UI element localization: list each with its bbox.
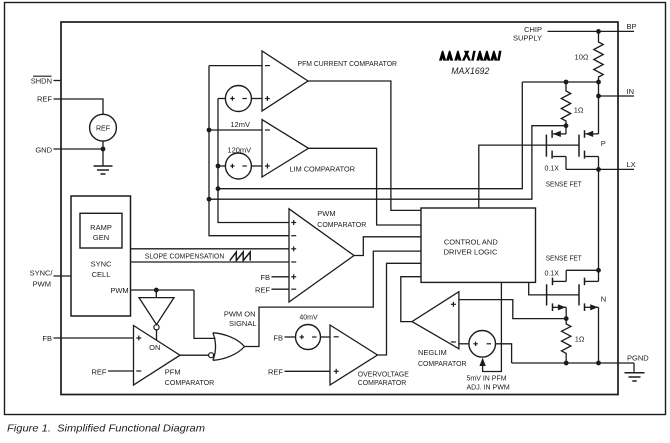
wire P gate drive from control logic — [479, 145, 579, 208]
wire chip supply to BP pin — [548, 30, 635, 32]
NEGLIM plus sign — [451, 302, 456, 307]
svg-text:COMPARATOR: COMPARATOR — [317, 220, 367, 229]
junction bus A / LIM minus — [207, 128, 212, 133]
svg-text:FB: FB — [260, 273, 270, 282]
label ON — [149, 343, 160, 352]
transistor Q3 N sense FET 0.1X — [547, 278, 553, 311]
wire slope compensation top — [131, 248, 290, 250]
wire 5mV source to PGND rail — [496, 344, 512, 363]
svg-text:0.1X: 0.1X — [545, 270, 560, 277]
label 0.1X (P sense FET) — [545, 165, 560, 172]
label REF (overvoltage) — [268, 367, 283, 376]
label REF (PWM comparator) — [255, 285, 270, 294]
svg-text:RAMP: RAMP — [90, 223, 112, 232]
wire FB pin to PFM comparator — [54, 337, 134, 339]
svg-text:BP: BP — [627, 22, 637, 31]
svg-text:SHDN: SHDN — [31, 77, 52, 86]
resistor R2 1ohm top — [561, 82, 570, 126]
junction 1ohm bottom / sense FET drain — [564, 123, 569, 128]
wire REF pin to reference block — [61, 99, 103, 114]
pin SHDN stub wire — [54, 80, 62, 82]
svg-text:N: N — [601, 295, 606, 304]
arrow 5mV adjust — [479, 358, 485, 366]
wire slope compensation bottom — [131, 261, 290, 263]
wire REF to PFM comparator — [108, 370, 134, 372]
junction GND node — [101, 147, 106, 152]
label N — [601, 295, 606, 304]
OR gate U-OR — [213, 333, 245, 361]
wire NEGLIM plus input to 1ohm bottom top — [459, 300, 566, 319]
wire bus A (PFM CC minus to PWM comparator) — [209, 66, 289, 236]
wire NEGLIM minus input to 5mV source — [459, 343, 469, 345]
wire LX rail — [566, 168, 634, 170]
svg-text:12mV: 12mV — [230, 120, 250, 129]
wire GND pin — [54, 148, 104, 150]
svg-text:DRIVER LOGIC: DRIVER LOGIC — [444, 248, 498, 257]
pin IN wire — [599, 95, 635, 97]
pin REF label — [37, 95, 52, 104]
wire 40mV source to overvoltage comparator — [321, 336, 331, 338]
wire sense B to 1ohm bottom — [209, 126, 566, 200]
ramp gen box — [80, 213, 122, 248]
svg-text:SYNC/: SYNC/ — [30, 269, 54, 278]
label PWM (sync cell output) — [110, 286, 128, 295]
wire PWM from sync cell — [131, 289, 195, 291]
junction bus B / sense wire A — [216, 186, 221, 191]
svg-text:SUPPLY: SUPPLY — [513, 33, 542, 42]
wire PFM current comparator output to control logic — [308, 81, 421, 210]
svg-text:SLOPE COMPENSATION: SLOPE COMPENSATION — [145, 254, 225, 261]
label 5mV IN PFM ADJ. IN PWM — [467, 376, 510, 392]
label SENSE FET (top) — [546, 182, 583, 189]
PFM current comparator plus sign — [265, 96, 270, 101]
svg-text:40mV: 40mV — [299, 314, 318, 321]
junction N FET drain / LX — [596, 268, 601, 273]
label PFM CURRENT COMPARATOR — [298, 59, 398, 68]
LIM comparator plus sign — [265, 164, 270, 169]
svg-text:REF: REF — [255, 285, 270, 294]
pin SYNC/PWM label — [30, 269, 54, 289]
wire PWM comparator output to control logic — [354, 237, 421, 256]
svg-text:PWM: PWM — [33, 280, 51, 289]
svg-text:LX: LX — [627, 160, 636, 169]
label MAX1692 — [451, 66, 489, 76]
IC boundary box — [61, 22, 618, 395]
offset source V2 120mV circle — [225, 153, 251, 179]
pin IN label — [627, 87, 635, 96]
offset source V1 12mV circle — [225, 86, 251, 112]
PFM current comparator minus sign — [265, 65, 270, 67]
junction bus B / 120mV source — [216, 164, 221, 169]
svg-text:PWM: PWM — [317, 209, 335, 218]
wire OR gate output to control logic — [245, 251, 422, 346]
overvoltage plus sign — [334, 369, 339, 374]
wire inverter bubble to PFM comparator ON input — [156, 330, 158, 341]
label SENSE FET (bottom) — [546, 256, 583, 263]
svg-text:SYNC: SYNC — [91, 260, 112, 269]
wire PGND rail — [512, 362, 634, 364]
PWM comparator input signs — [291, 220, 296, 289]
svg-text:ADJ. IN PWM: ADJ. IN PWM — [467, 385, 510, 392]
svg-text:FB: FB — [42, 334, 52, 343]
wire LX to N FET drain — [598, 169, 600, 270]
label SLOPE COMPENSATION — [145, 254, 225, 261]
label 40mV — [299, 314, 318, 321]
svg-text:PFM CURRENT COMPARATOR: PFM CURRENT COMPARATOR — [298, 59, 398, 68]
svg-text:PWM: PWM — [110, 286, 128, 295]
svg-text:5mV IN PFM: 5mV IN PFM — [467, 376, 507, 383]
junction rail / 10ohm bottom — [596, 80, 601, 85]
wire REF to PWM comparator — [272, 288, 290, 290]
resistor R1 10ohm — [594, 31, 603, 82]
junction PWM node — [154, 288, 159, 293]
op-amp PFM current comparator triangle — [262, 51, 308, 111]
wire LIM comparator output to control logic — [309, 148, 422, 225]
PFM comparator plus sign — [136, 336, 141, 341]
svg-text:1Ω: 1Ω — [575, 335, 585, 344]
wire bus B (12mV source to PWM comparator) — [218, 99, 289, 223]
svg-text:10Ω: 10Ω — [575, 52, 589, 61]
junction 1ohm bottom resistor top — [564, 316, 569, 321]
op-amp overvoltage comparator triangle — [330, 325, 378, 385]
svg-text:Figure 1. Simplified Function: Figure 1. Simplified Functional Diagram — [7, 423, 205, 435]
wire FB to 40mV source — [285, 336, 296, 338]
pin PGND label — [627, 353, 649, 362]
svg-text:REF: REF — [37, 95, 52, 104]
label 12mV — [230, 120, 250, 129]
wire PWM node to OR gate top input — [194, 290, 216, 338]
sawtooth ramp icon — [230, 252, 250, 261]
svg-text:COMPARATOR: COMPARATOR — [418, 359, 467, 368]
svg-text:PGND: PGND — [627, 353, 649, 362]
label OVERVOLTAGE COMPARATOR — [358, 370, 409, 388]
svg-text:1Ω: 1Ω — [574, 105, 584, 114]
junction LX node — [596, 167, 601, 172]
svg-text:PWM ON: PWM ON — [224, 310, 256, 319]
junction bus A / sense wire B — [207, 197, 212, 202]
svg-text:SIGNAL: SIGNAL — [229, 319, 257, 328]
svg-text:REF: REF — [92, 367, 107, 376]
ground symbol PGND — [633, 363, 635, 372]
svg-text:COMPARATOR: COMPARATOR — [165, 378, 215, 387]
wire supply rail — [522, 81, 598, 83]
wire IN node vertical — [598, 82, 600, 134]
inverter U-INV triangle — [139, 298, 174, 325]
wire PWM node to inverter — [155, 290, 157, 298]
NEGLIM minus sign — [451, 341, 456, 343]
pin REF stub wire — [54, 98, 62, 100]
wire REF to overvoltage comparator — [285, 370, 331, 372]
svg-text:SENSE FET: SENSE FET — [546, 256, 583, 263]
sync cell box — [71, 196, 131, 316]
transistor Q1 P sense FET 0.1X — [546, 130, 552, 158]
label LIM COMPARATOR — [290, 165, 356, 174]
junction PGND / 1ohm bottom — [564, 361, 569, 366]
op-amp NEGLIM comparator triangle — [412, 292, 459, 349]
label 1ohm top — [574, 105, 584, 114]
wire 120mV source to LIM comparator — [251, 165, 262, 167]
pin BP label — [627, 22, 637, 31]
wire NEGLIM output to control logic — [401, 277, 421, 322]
PFM comparator minus sign — [136, 370, 141, 372]
pin SYNC/PWM stub wire — [54, 275, 72, 277]
svg-text:CELL: CELL — [92, 270, 111, 279]
wire PFM comparator output to OR gate — [180, 354, 209, 356]
label PWM ON SIGNAL — [224, 310, 257, 329]
wire LIM comparator minus input — [209, 129, 262, 131]
wire control logic to 5mV adjust — [483, 282, 502, 371]
transistor Q2 main P FET — [579, 130, 585, 158]
caption Figure 1 — [7, 423, 205, 435]
svg-text:P: P — [601, 139, 606, 148]
svg-text:LIM COMPARATOR: LIM COMPARATOR — [290, 165, 356, 174]
control and driver logic box U-CTL — [421, 208, 536, 282]
junction PGND / N FET source — [596, 361, 601, 366]
junction BP node — [596, 29, 601, 34]
resistor R3 1ohm bottom — [562, 319, 571, 363]
wire 12mV source to PFM current comparator — [251, 98, 262, 100]
wire 12mV source left — [218, 98, 225, 100]
reference block U-REF circle — [90, 114, 117, 141]
svg-text:IN: IN — [627, 87, 635, 96]
pin FB label — [42, 334, 52, 343]
offset source V3 5mV circle — [469, 331, 496, 358]
svg-text:NEGLIM: NEGLIM — [418, 348, 447, 357]
label 10ohm — [575, 52, 589, 61]
OR gate input bubble — [209, 353, 214, 358]
svg-text:CONTROL AND: CONTROL AND — [444, 238, 498, 247]
transistor Q4 main N FET — [579, 278, 585, 311]
svg-text:SENSE FET: SENSE FET — [546, 182, 583, 189]
wire PFM current comparator minus input — [209, 65, 262, 67]
wire 120mV source left — [218, 165, 225, 167]
overvoltage minus sign — [334, 336, 339, 338]
label FB (overvoltage) — [273, 334, 283, 343]
wire REF block to ground — [102, 141, 104, 165]
junction IN node — [596, 94, 601, 99]
svg-text:FB: FB — [273, 334, 283, 343]
svg-text:0.1X: 0.1X — [545, 165, 560, 172]
label P — [601, 139, 606, 148]
inverter output bubble — [154, 325, 159, 330]
op-amp LIM comparator triangle — [262, 120, 309, 177]
wire FB to PWM comparator — [272, 276, 290, 278]
LIM comparator minus sign — [265, 129, 270, 131]
label PWM COMPARATOR — [317, 209, 367, 229]
label 120mV — [227, 145, 251, 154]
svg-text:REF: REF — [268, 367, 283, 376]
junction rail / 1ohm top — [564, 80, 569, 85]
label FB (PWM comparator) — [260, 273, 270, 282]
label REF (PFM comparator) — [92, 367, 107, 376]
logo MAXIM — [439, 51, 502, 61]
ground symbol GND — [94, 166, 113, 174]
op-amp PWM comparator triangle — [289, 209, 354, 302]
label 1ohm bottom — [575, 335, 585, 344]
label NEGLIM COMPARATOR — [418, 348, 467, 368]
wire sense A to 1ohm top — [218, 82, 522, 189]
pin LX label — [627, 160, 636, 169]
op-amp PFM comparator triangle — [134, 326, 181, 386]
svg-text:PFM: PFM — [165, 368, 181, 377]
wire N gate drive from control logic — [529, 282, 579, 295]
label CHIP SUPPLY — [513, 25, 542, 43]
pin SHDN overline — [33, 75, 52, 77]
svg-text:ON: ON — [149, 343, 160, 352]
pin SHDN label — [31, 77, 52, 86]
svg-text:GND: GND — [35, 146, 52, 155]
label PFM COMPARATOR — [165, 368, 215, 387]
offset source V4 40mV circle — [296, 325, 321, 350]
svg-text:MAX1692: MAX1692 — [451, 66, 489, 76]
label 0.1X (N sense FET) — [545, 270, 560, 277]
wire overvoltage output to control logic — [378, 263, 422, 355]
svg-text:COMPARATOR: COMPARATOR — [358, 378, 407, 387]
svg-text:REF: REF — [96, 125, 110, 132]
pin GND label — [35, 146, 52, 155]
svg-text:GEN: GEN — [93, 233, 109, 242]
